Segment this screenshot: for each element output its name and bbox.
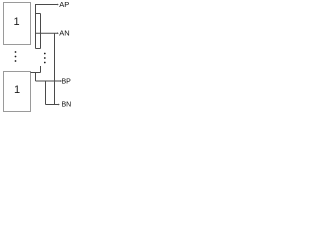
svg-text:1: 1	[14, 84, 20, 96]
wire long vertical x54	[54, 33, 56, 104]
wire BN horizontal	[46, 104, 59, 106]
wire V1 vertical x35	[35, 4, 37, 49]
wire V2 vertical x40	[40, 14, 42, 49]
wire resume below dots x40	[40, 66, 42, 73]
ellipsis dots right (wire continuation)	[44, 53, 46, 64]
arrowhead AP	[57, 4, 59, 6]
wire loop bottom y48	[36, 48, 41, 50]
wire AP horizontal	[36, 4, 58, 6]
wires	[31, 4, 62, 105]
wire vertical x35 to BP	[35, 73, 37, 82]
svg-text:AN: AN	[59, 29, 69, 38]
wire AN horizontal	[36, 32, 58, 34]
wire BP horizontal	[36, 80, 62, 82]
svg-text:AP: AP	[59, 0, 69, 9]
arrowhead BP	[60, 80, 62, 82]
wire into box2 top y72	[31, 72, 41, 74]
arrowhead BN	[58, 104, 60, 106]
svg-text:1: 1	[13, 16, 19, 28]
svg-text:BN: BN	[62, 102, 72, 109]
module box 1 (top)	[4, 3, 31, 45]
wire stub y13	[36, 13, 41, 15]
module box 2 (bottom)	[4, 72, 31, 112]
wire vertical x45 down	[45, 81, 47, 105]
ellipsis dots left (between boxes)	[15, 51, 17, 62]
arrowhead AN	[57, 32, 59, 34]
svg-text:BP: BP	[62, 78, 72, 85]
